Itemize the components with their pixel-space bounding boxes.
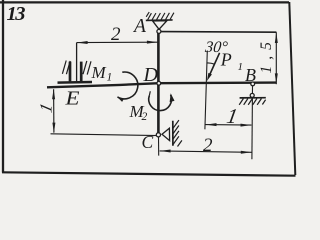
svg-text:M: M	[91, 63, 107, 82]
svg-text:P: P	[220, 50, 232, 70]
svg-text:2: 2	[111, 24, 121, 45]
svg-text:1,5: 1,5	[258, 36, 275, 73]
svg-text:A: A	[132, 16, 146, 37]
svg-text:D: D	[143, 64, 159, 86]
svg-text:1: 1	[238, 61, 244, 73]
svg-text:1: 1	[107, 72, 113, 84]
svg-text:E: E	[64, 88, 79, 110]
svg-text:B: B	[245, 65, 256, 85]
svg-text:13: 13	[7, 3, 26, 25]
svg-text:C: C	[142, 132, 154, 152]
svg-text:2: 2	[203, 135, 213, 156]
svg-text:2: 2	[142, 111, 148, 123]
